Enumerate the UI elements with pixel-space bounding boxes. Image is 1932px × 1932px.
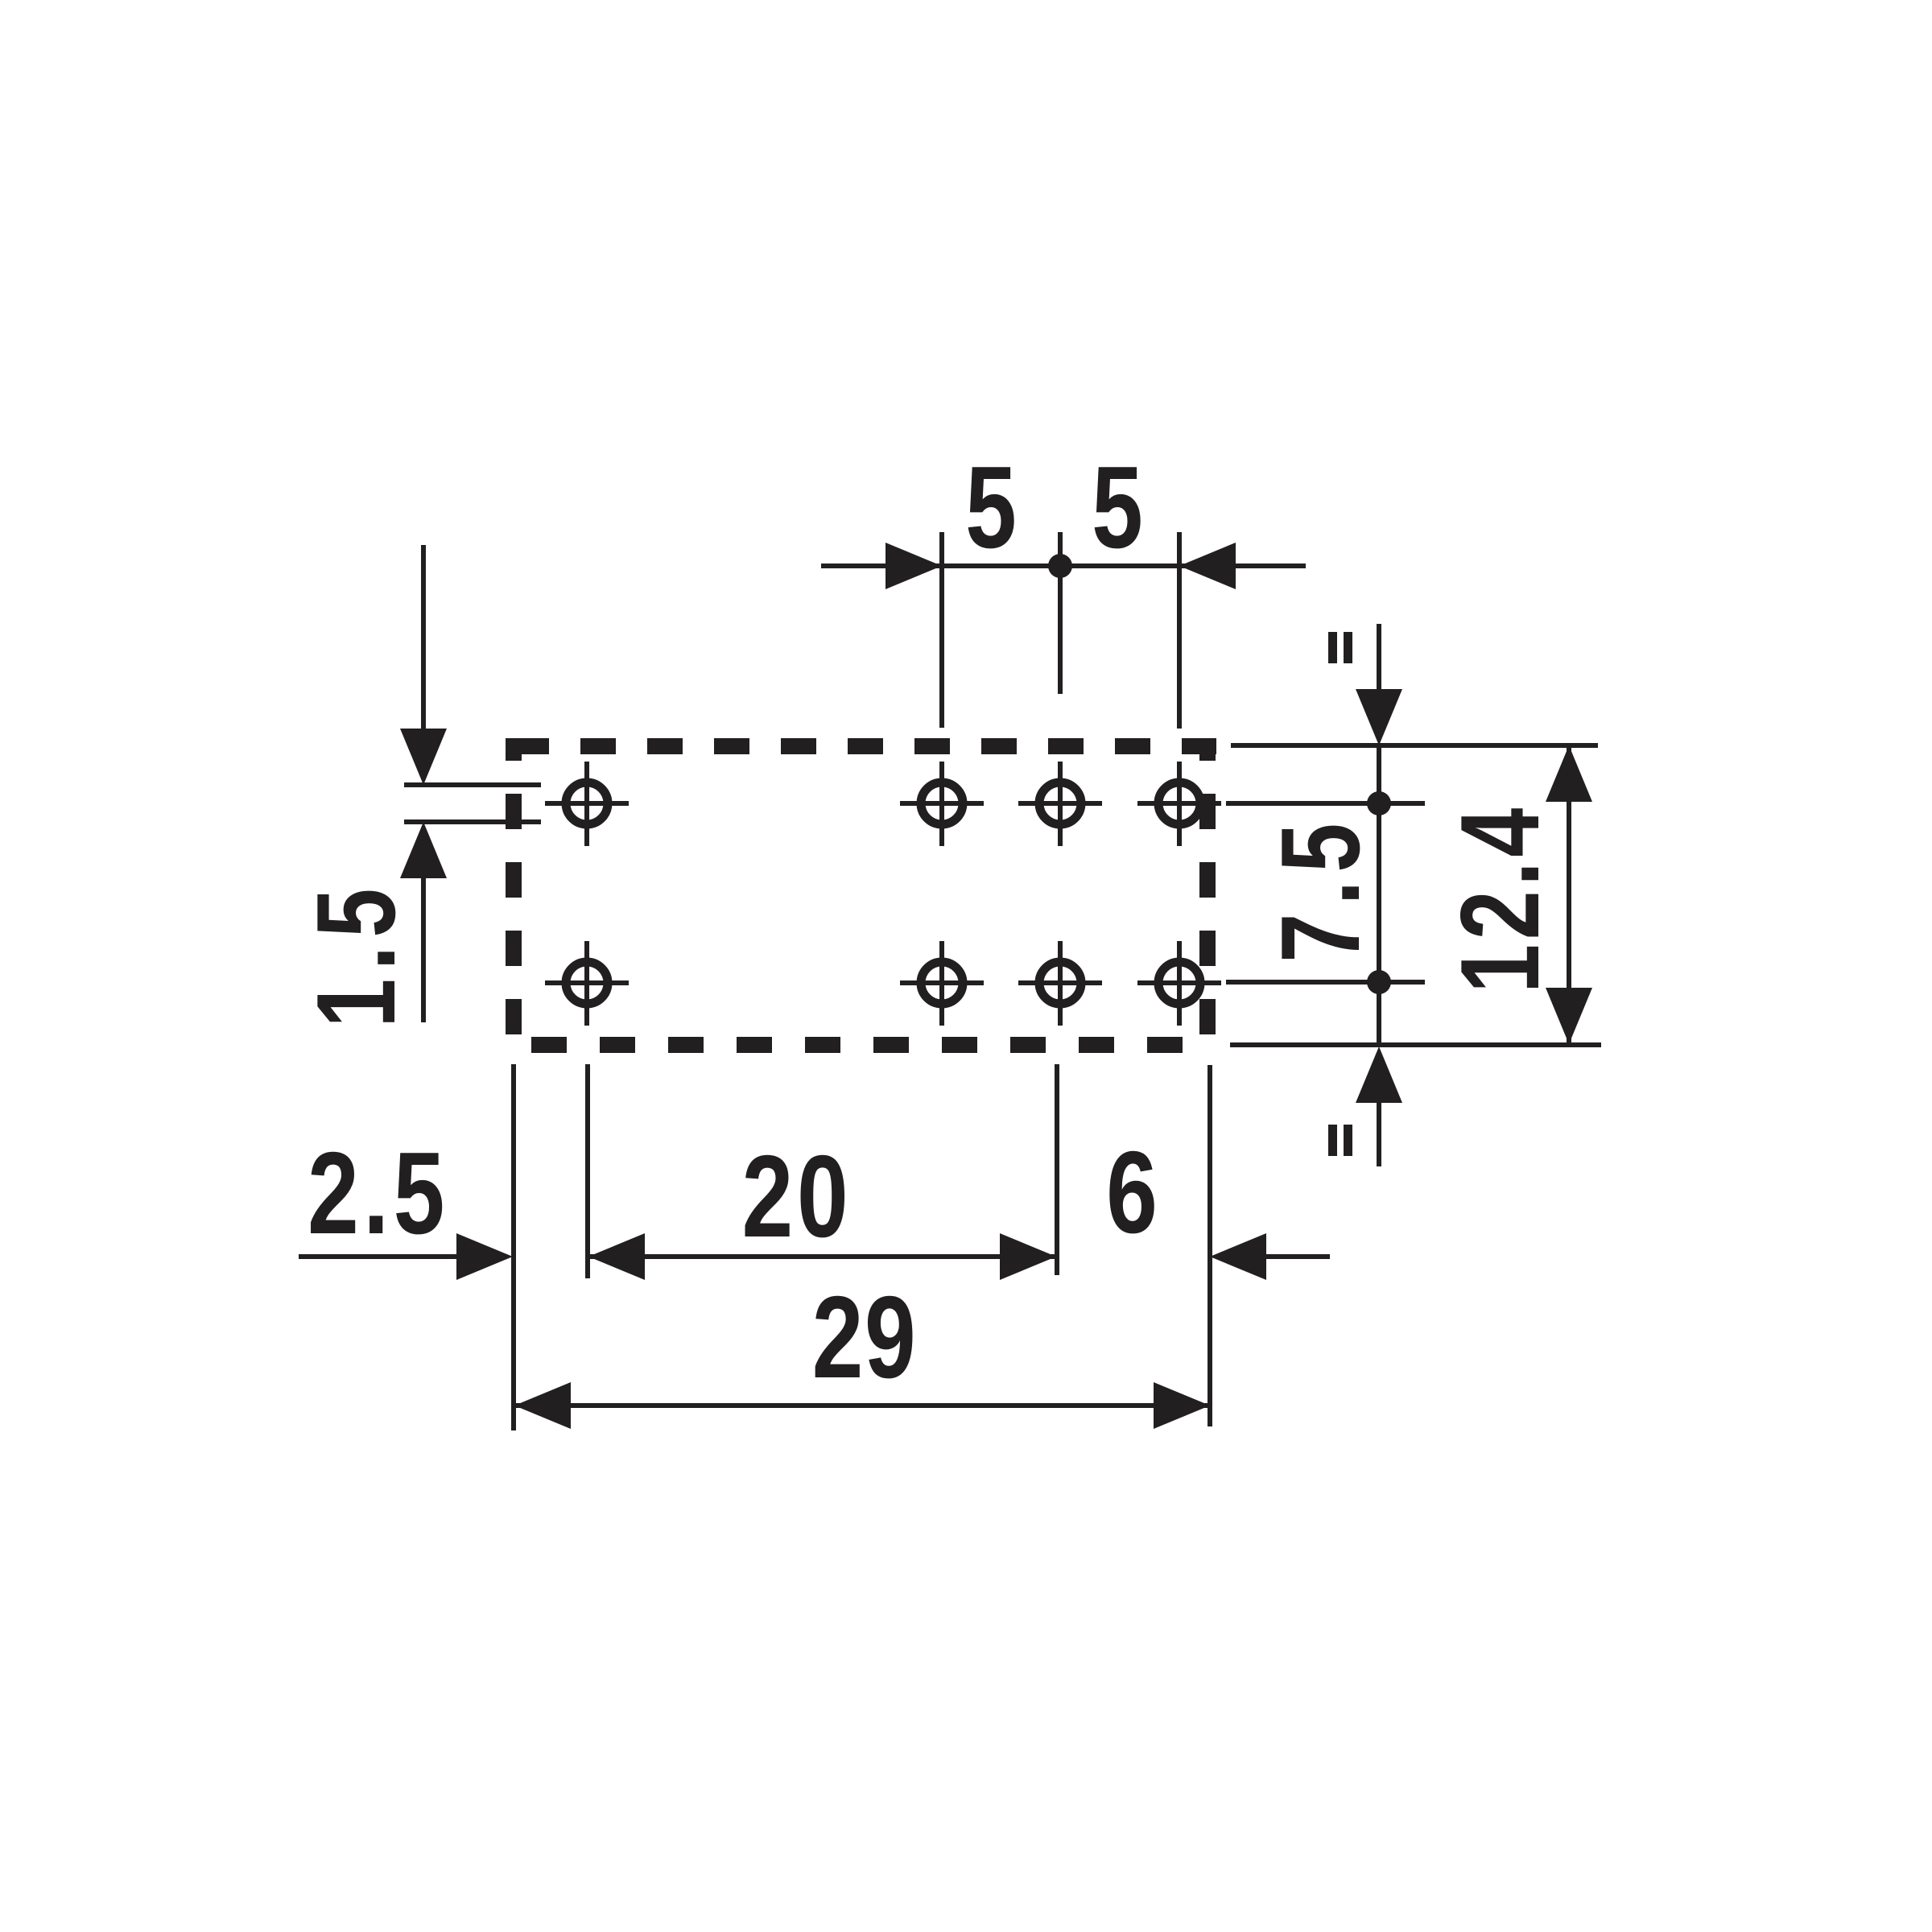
dim 6 arrow xyxy=(1210,1233,1266,1280)
dim 29 arrow left xyxy=(514,1382,571,1429)
dim line x1713 bottom tail xyxy=(1377,1103,1381,1166)
hole bottom row right group 3 xyxy=(1137,941,1221,1026)
label 2.5 xyxy=(308,1128,449,1258)
dim 29 arrow right xyxy=(1154,1382,1210,1429)
dimension 12.4 xyxy=(1567,745,1571,1044)
extension tick col 1317 xyxy=(1058,532,1063,694)
extension line pin col down xyxy=(585,1064,590,1278)
dim line x1713 middle xyxy=(1377,745,1381,1046)
equal symbol top xyxy=(1328,632,1352,663)
tangent line lower xyxy=(404,819,541,824)
svg-text:29: 29 xyxy=(812,1272,918,1402)
outline right edge xyxy=(1199,738,1216,1052)
dim line x1713 top tail xyxy=(1377,624,1381,689)
svg-text:6: 6 xyxy=(1106,1127,1158,1257)
hole top row right group 3 xyxy=(1137,762,1221,846)
equal dim arrow down xyxy=(1356,689,1402,745)
hole bottom row right group 2 xyxy=(1018,941,1102,1026)
outline bottom edge xyxy=(531,1037,1212,1053)
label 12.4 xyxy=(1438,803,1563,993)
dim 20 arrow right xyxy=(1000,1233,1056,1280)
dim line 6 tail xyxy=(1266,1254,1330,1259)
extension line top hole row right xyxy=(1226,801,1425,806)
hole top row right group 2 xyxy=(1018,762,1102,846)
svg-text:5: 5 xyxy=(1092,442,1143,572)
label 20 xyxy=(742,1131,852,1261)
hole bottom row right group 1 xyxy=(900,941,984,1026)
hole top row right group 1 xyxy=(900,762,984,846)
top dimension 5,5 lines xyxy=(821,532,1306,729)
equal dim node dot bottom xyxy=(1367,970,1391,994)
label 7.5 xyxy=(1258,815,1383,962)
dim line 12.4 xyxy=(1567,745,1571,1044)
extension line bottom edge right xyxy=(1230,1042,1601,1047)
label 5 first xyxy=(965,442,1017,572)
extension tick col 1170 xyxy=(939,532,944,728)
label 5 second xyxy=(1092,442,1143,572)
equal symbol bottom xyxy=(1328,1125,1352,1156)
svg-text:2.5: 2.5 xyxy=(308,1128,449,1258)
svg-text:20: 20 xyxy=(742,1131,852,1261)
hole bottom-left xyxy=(545,941,629,1026)
svg-text:12.4: 12.4 xyxy=(1438,803,1563,993)
outline left edge xyxy=(506,738,522,1052)
bottom extension lines xyxy=(299,1064,1330,1430)
svg-text:5: 5 xyxy=(965,442,1017,572)
dim line 29 xyxy=(514,1403,1210,1408)
dim line 1.5 lower tail xyxy=(421,878,426,1022)
dim 12.4 arrow down xyxy=(1546,988,1592,1044)
tangent line upper xyxy=(404,782,541,787)
extension line mid col down xyxy=(1055,1064,1059,1275)
dim 5,5 arrow right xyxy=(885,543,942,589)
right equal-spacing dimension xyxy=(1226,624,1601,1166)
dim 20 arrow left xyxy=(588,1233,645,1280)
svg-text:7.5: 7.5 xyxy=(1258,815,1383,962)
dim line 2.5 tail xyxy=(299,1254,456,1259)
extension line left edge down xyxy=(511,1064,516,1430)
outline top edge xyxy=(514,738,1216,754)
svg-text:1.5: 1.5 xyxy=(294,880,419,1027)
extension line top edge right xyxy=(1231,743,1598,748)
dim 12.4 arrow up xyxy=(1546,745,1592,802)
dim 1.5 arrow down xyxy=(400,729,447,785)
extension line bottom hole row right xyxy=(1226,980,1425,985)
dim line 1.5 upper tail xyxy=(421,545,426,729)
dim line 5,5 xyxy=(821,563,1306,568)
equal dim node dot top xyxy=(1367,791,1391,815)
left dimension 1.5 xyxy=(404,545,541,1022)
hole pin1 top-left xyxy=(545,762,629,846)
dim 2.5 arrow xyxy=(456,1233,513,1280)
equal dim arrow up xyxy=(1356,1046,1402,1103)
dim 5,5 arrow left xyxy=(1179,543,1236,589)
extension line right edge down xyxy=(1207,1065,1212,1426)
relay body outline (dashed rectangle) xyxy=(514,738,1216,1052)
extension tick col 1465 xyxy=(1177,532,1182,729)
dim 1.5 arrow up xyxy=(400,822,447,878)
dim line 20 xyxy=(588,1254,1057,1259)
dim 5,5 node dot xyxy=(1048,554,1072,578)
label 29 xyxy=(812,1272,918,1402)
label 6 xyxy=(1106,1127,1158,1257)
label 1.5 xyxy=(294,880,419,1027)
